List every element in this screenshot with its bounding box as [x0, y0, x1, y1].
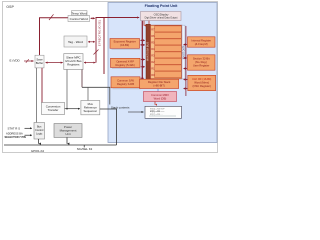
pin tick SIG [83, 145, 85, 147]
stack right strip [182, 25, 185, 79]
svg-text:Digit Driver or/and Data Outpu: Digit Driver or/and Data Output [145, 17, 178, 20]
svg-text:ST(7) = R3 . . .: ST(7) = R3 . . . [150, 114, 164, 116]
svg-text:(OSC Register): (OSC Register) [193, 84, 211, 88]
vertical bus V2 [103, 18, 105, 75]
box Tag Word [64, 36, 87, 47]
svg-text:Register File Stack: Register File Stack [148, 80, 171, 84]
svg-text:CLK RF (16-Bit): CLK RF (16-Bit) [192, 77, 211, 81]
svg-text:R3: R3 [151, 53, 155, 57]
arrow stack contents to list [128, 111, 144, 113]
arrow slash [26, 59, 29, 63]
svg-text:Common S/W: Common S/W [117, 78, 134, 82]
svg-text:Stack contents: Stack contents [111, 106, 130, 110]
bottom bus wire [4, 144, 117, 146]
stack left strip [146, 24, 150, 79]
box Save Buffer [35, 55, 44, 68]
arrow L2a [141, 59, 145, 61]
svg-text:(& Freq M): (& Freq M) [195, 42, 208, 46]
box R3 CLK Register [188, 75, 216, 90]
box L1 Exponent Register [110, 39, 140, 49]
arrow R1 [183, 44, 187, 46]
svg-text:User Register: User Register [193, 63, 210, 67]
box R2 Section User Register [188, 55, 216, 70]
svg-text:Control Word: Control Word [70, 17, 88, 21]
wire Save Buffer down dark [36, 68, 38, 124]
box Register File Stack [140, 79, 179, 88]
svg-text:Word (DB): Word (DB) [154, 96, 167, 100]
svg-text:R1: R1 [151, 66, 155, 70]
svg-text:GPIO1-K2: GPIO1-K2 [31, 149, 45, 153]
svg-text:Unit: Unit [65, 132, 70, 136]
svg-text:R5: R5 [151, 40, 155, 44]
arrow Save Buffer to Slave box [46, 62, 63, 64]
tick stack to MMX [157, 89, 159, 92]
arrow L2b [141, 66, 145, 68]
box Control Word [68, 16, 90, 22]
wire Conversion to Mux [65, 108, 80, 110]
arrow R3b [183, 88, 187, 90]
stack row labels [151, 27, 155, 77]
svg-text:Control: Control [35, 128, 44, 132]
svg-text:Temp Word: Temp Word [72, 11, 88, 15]
svg-text:Section 32-Bit: Section 32-Bit [193, 57, 210, 61]
wire Slave down 2 [81, 70, 83, 88]
arrow MMX to stack contents [154, 102, 156, 105]
svg-text:Buffer: Buffer [36, 61, 43, 65]
svg-text:Floating Point Unit: Floating Point Unit [145, 4, 179, 8]
arrow R3a [183, 79, 187, 81]
blue panel Floating Point Unit [108, 3, 217, 143]
arrow E(VDD) to Save Buffer [24, 60, 34, 62]
wire down into Mux [87, 87, 89, 100]
svg-text:Word (Mem): Word (Mem) [194, 81, 209, 85]
arrow Slave box to V1 [84, 62, 95, 64]
svg-text:Exponent Register: Exponent Register [114, 40, 136, 44]
V1 slash [94, 50, 99, 55]
svg-text:80-BIT DATA: 80-BIT DATA [182, 45, 185, 59]
vertical wire V1 [95, 18, 97, 63]
svg-text:STAT R S: STAT R S [8, 127, 21, 131]
wire Mux to bottom [100, 109, 117, 145]
svg-text:Bus: Bus [37, 125, 42, 129]
svg-text:OSP: OSP [6, 5, 14, 9]
arrow driver to stack 1 [143, 21, 145, 26]
arrow L1a [140, 39, 145, 41]
left stack bus [141, 21, 143, 79]
svg-text:ST(1) = R5 ——: ST(1) = R5 —— [150, 111, 164, 113]
svg-text:ADDRESS BA: ADDRESS BA [6, 132, 23, 136]
svg-text:Registers: Registers [67, 62, 80, 66]
svg-text:Tag - Word: Tag - Word [68, 40, 83, 44]
box L3 Common Registry [111, 77, 140, 88]
wire Slave down 1 [66, 70, 68, 109]
box stack contents list [145, 106, 182, 118]
box L2 Operand Register [111, 58, 141, 67]
right stack bus [185, 26, 187, 96]
svg-text:Common MMX: Common MMX [151, 93, 169, 97]
svg-text:MANTISSA BUS: MANTISSA BUS [145, 42, 149, 61]
svg-text:ST(0) = R4 TOP: ST(0) = R4 TOP [150, 108, 165, 110]
box Conversion Transfer [41, 103, 64, 115]
page frame [3, 2, 218, 153]
svg-text:Internal Register: Internal Register [191, 38, 211, 42]
svg-text:R7: R7 [151, 27, 155, 31]
box Common MMX [144, 92, 177, 102]
arrow L3a [141, 77, 144, 79]
wire across to panel edge [82, 87, 110, 104]
box display driver (panel top) [141, 12, 182, 21]
arrow L1 [140, 44, 145, 46]
svg-text:R2: R2 [151, 60, 155, 64]
arrow R2b [183, 68, 187, 70]
wire Bus Control pin [38, 139, 40, 144]
svg-text:Operand X-RP: Operand X-RP [116, 59, 134, 63]
svg-text:Transfer: Transfer [48, 108, 59, 112]
arrow driver to stack 2 [148, 21, 150, 26]
arrow Tag Word to bus [88, 41, 95, 43]
svg-text:SELECTOR 7 PIN: SELECTOR 7 PIN [5, 135, 26, 139]
arrow ADDRESS to Bus Control [25, 134, 33, 136]
svg-text:Logic: Logic [36, 131, 43, 135]
wire top run into panel [96, 17, 140, 19]
box Slave MPC registers [64, 54, 83, 70]
bus slash mark [49, 14, 54, 20]
arrow R2a [183, 57, 187, 59]
box Mux Reference Sequencer [81, 101, 100, 115]
svg-text:R6: R6 [151, 34, 155, 38]
svg-text:Registry (5-32b): Registry (5-32b) [116, 63, 135, 67]
wire Save Buffer down maroon [41, 68, 43, 103]
register stack frame [150, 25, 182, 79]
box Power Management Unit [54, 124, 82, 138]
svg-text:Sequencer: Sequencer [84, 109, 98, 113]
box Bus Control Logic [34, 123, 45, 140]
svg-text:E (VDD: E (VDD [10, 59, 21, 63]
wire PMU pin [66, 137, 68, 143]
svg-text:SIG/SEL K2: SIG/SEL K2 [77, 147, 93, 151]
svg-text:(16-Bit): (16-Bit) [120, 43, 129, 47]
svg-text:R4: R4 [151, 47, 155, 51]
svg-text:(+80-BIT): (+80-BIT) [153, 84, 165, 88]
svg-text:R0: R0 [151, 73, 155, 77]
svg-text:E FREQ TRIG I/O SEL: E FREQ TRIG I/O SEL [98, 19, 102, 46]
box R1 Internal Register [188, 37, 216, 47]
stack rows R7..R0 [155, 26, 182, 78]
arrow STAT to Bus Control [25, 127, 33, 129]
box Temp Word [72, 11, 88, 16]
junction [66, 108, 68, 110]
arrow L3b [141, 85, 144, 87]
wire: left loop into Control Word [40, 18, 69, 55]
svg-text:Registry S-DB: Registry S-DB [117, 82, 134, 86]
arrow Control Word to bus [91, 17, 96, 19]
svg-text:(M+ Reg.): (M+ Reg.) [195, 60, 207, 64]
